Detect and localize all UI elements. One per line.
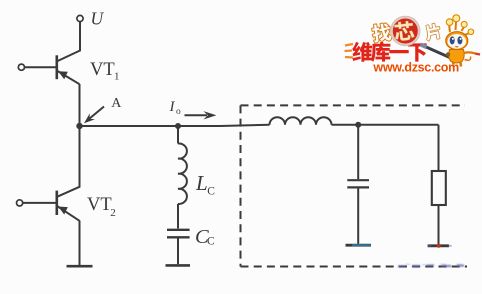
wire C to ground: [357, 189, 359, 244]
VT2 base bar: [55, 191, 58, 215]
cyan tint on ground C: [352, 244, 371, 246]
watermark: dzsc logo: [345, 15, 481, 75]
VT2 emitter down wire: [79, 221, 81, 266]
left rail wire (VT1 emitter to VT2 collector): [57, 84, 80, 197]
svg-text:o: o: [176, 107, 181, 117]
wire inductor to right corner: [332, 124, 439, 126]
mouth: [455, 45, 458, 48]
ground C: [346, 244, 372, 247]
VT2 base terminal circle: [17, 200, 23, 206]
face: [448, 34, 467, 49]
dashed box top edge: [241, 104, 466, 106]
inductor Lc wire down: [177, 126, 179, 144]
VT2 base wire: [23, 202, 56, 204]
wire Cc to ground: [177, 239, 179, 265]
legs: [453, 63, 461, 67]
svg-text:C: C: [207, 236, 215, 248]
dashed box left edge: [240, 105, 242, 266]
tail curl: [465, 57, 471, 61]
VT1 emitter arrow (PNP style): [58, 71, 68, 79]
transistor Q VT1: [57, 55, 80, 84]
svg-text:A: A: [111, 96, 122, 111]
capacitor C plates: [347, 180, 369, 187]
dashed box bottom edge: [241, 266, 468, 268]
svg-text:VT: VT: [90, 60, 115, 80]
crown stalks: [449, 20, 470, 36]
crown balls: [446, 19, 453, 26]
arrow to node A: [89, 107, 105, 120]
red text xia: [408, 43, 427, 61]
VT1 base wire: [25, 66, 56, 68]
capacitor Cc: [167, 230, 190, 238]
node A dot: [76, 123, 82, 129]
svg-text:VT: VT: [87, 195, 112, 215]
wire right corner down to resistor R: [438, 125, 440, 171]
red dot on ground R: [437, 244, 441, 248]
char xin inside circle: [394, 21, 415, 42]
VT2 emitter wire: [58, 206, 80, 221]
ground VT2: [67, 265, 93, 268]
wire R to ground: [438, 205, 440, 245]
red text yi: [389, 50, 408, 53]
svg-text:C: C: [207, 186, 215, 198]
junction dot at C tap: [355, 122, 361, 128]
main horizontal wire from node A into box: [80, 125, 270, 126]
transistor Q VT2: [57, 191, 80, 221]
red text ku: [371, 42, 391, 62]
VT1 emitter wire: [58, 71, 80, 84]
svg-text:www.dzsc.com: www.dzsc.com: [372, 61, 459, 75]
blue ticks on ground R: [428, 245, 452, 247]
head: [446, 32, 468, 50]
svg-text:L: L: [195, 171, 208, 195]
resistor R body: [432, 171, 446, 205]
red circle (magnifier): [392, 17, 419, 44]
svg-text:I: I: [169, 99, 176, 115]
ground Cc: [166, 264, 191, 267]
svg-text:1: 1: [114, 70, 120, 82]
mascot: [446, 15, 480, 67]
watermark: blue smudge on bottom dashed line: [398, 264, 464, 266]
right arm: [464, 52, 476, 53]
terminal U circle: [77, 15, 83, 21]
telescope stick: [421, 45, 453, 59]
capacitor C wire down: [357, 125, 359, 179]
Io current arrow: [185, 114, 208, 116]
VT1 base bar: [55, 55, 58, 79]
inductor Lc coil: [178, 143, 187, 203]
eyes: [450, 36, 455, 44]
junction dot at Lc tap: [175, 123, 181, 129]
svg-text:2: 2: [110, 207, 116, 219]
outlined char zhao: [371, 23, 391, 43]
inductor L (horizontal, in box): [270, 117, 332, 125]
body: [449, 50, 464, 64]
red text wei: [352, 42, 372, 62]
ground R: [428, 244, 449, 247]
VT1 base terminal circle: [18, 64, 24, 70]
speed lines: [345, 44, 353, 46]
outlined char pian: [424, 23, 441, 41]
VT2 emitter arrow (PNP style): [58, 207, 68, 215]
wire U to VT1 collector: [58, 22, 80, 61]
hand on stick: [446, 52, 450, 56]
wire Lc to Cc: [177, 204, 179, 229]
svg-text:U: U: [91, 9, 105, 29]
